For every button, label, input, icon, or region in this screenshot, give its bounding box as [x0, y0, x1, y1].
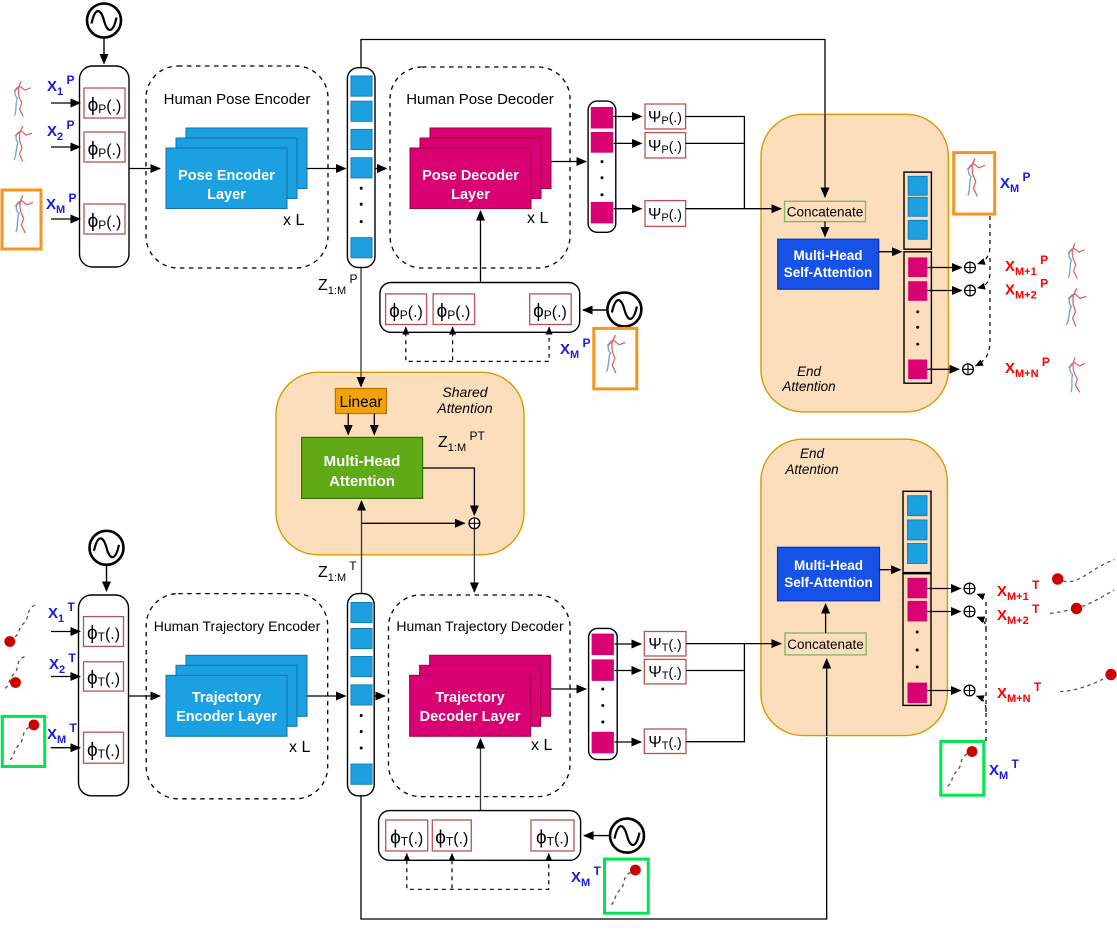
wire: Z_T branch to oplus	[362, 522, 465, 524]
wire: encoder to Z_T tokens	[307, 695, 346, 697]
wire: Z_P into Linear	[360, 372, 362, 387]
wire: input M arrow (T)	[51, 747, 80, 749]
oplus 2 (bottom)	[964, 606, 975, 617]
output skeleton 2	[1066, 288, 1086, 326]
phi-P box 3	[84, 204, 125, 234]
svg-text:x L: x L	[531, 737, 552, 754]
svg-text:Decoder Layer: Decoder Layer	[420, 709, 521, 725]
wire: Psi-P 3 to junction	[686, 208, 762, 210]
wire: MHSA to end tokens (bottom)	[880, 569, 901, 571]
svg-text:Trajectory: Trajectory	[435, 690, 504, 706]
wire: input 2 arrow	[51, 146, 80, 148]
Psi-T box 3	[644, 729, 686, 754]
wire: MHSA to end tokens (top)	[879, 251, 902, 253]
wire: Psi-T 3 to junction	[686, 644, 744, 742]
end token column magenta part (bottom)	[903, 574, 931, 706]
Linear box	[335, 389, 386, 414]
skeleton input M	[16, 196, 33, 233]
orange box X_M P (right)	[954, 153, 995, 215]
arrows up into query boxes	[405, 327, 407, 332]
svg-text:Attention: Attention	[784, 462, 838, 477]
trajectory encoder layer stack (back)	[186, 655, 307, 716]
phi-P embedding column	[80, 66, 130, 267]
output trajectory N	[1060, 679, 1103, 692]
svg-text:Human Trajectory Decoder: Human Trajectory Decoder	[396, 618, 564, 634]
blue token 1	[351, 76, 372, 96]
wire: encoder to Z tokens	[307, 168, 346, 170]
oplus 1 (bottom)	[964, 583, 975, 594]
sine source (pose query)	[607, 293, 641, 327]
skeleton input 2	[14, 126, 32, 161]
trajectory input 2	[5, 657, 25, 689]
blue token 5	[351, 238, 372, 258]
svg-text:Self-Attention: Self-Attention	[784, 265, 873, 280]
phi-P query box 3	[530, 294, 572, 325]
positional encoding sine source (bottom-left)	[90, 531, 124, 565]
Psi-T box 1	[644, 632, 686, 657]
end token column magenta part (top)	[904, 252, 931, 383]
wire: token to oplus 3 (bottom)	[927, 690, 961, 692]
positional encoding sine source (top-left)	[87, 4, 121, 38]
svg-text:Linear: Linear	[339, 394, 382, 411]
Psi-P box 2	[645, 133, 686, 158]
wire: Z tokens down to Linear	[360, 268, 362, 374]
end token column blue part (top)	[904, 172, 931, 249]
svg-text:Shared: Shared	[442, 384, 488, 400]
trajectory output token column	[589, 628, 618, 759]
phi-P box 2	[84, 132, 125, 162]
svg-text:Pose Decoder: Pose Decoder	[422, 168, 519, 184]
phi-T query box 3	[531, 820, 574, 851]
svg-text:Concatenate: Concatenate	[787, 637, 864, 652]
wire: input 1 arrow (T)	[51, 631, 80, 633]
svg-text:Self-Attention: Self-Attention	[784, 575, 873, 590]
svg-text:End: End	[797, 364, 822, 379]
wire: query embeddings up into trajectory decoder	[480, 739, 482, 811]
oplus (shared)	[469, 518, 480, 529]
wire: token to Psi-P 1	[614, 116, 642, 118]
dots	[601, 160, 604, 163]
phi-P query box 1	[386, 294, 427, 325]
pose encoder layer stack (back)	[186, 128, 307, 189]
Psi-T box 2	[644, 659, 686, 684]
wire: Psi junction into Concatenate (top)	[760, 208, 781, 210]
wire: Concatenate to MHSA (top)	[824, 222, 826, 237]
dashed residual: XM T to oplus 2	[977, 617, 986, 712]
phi-T query box 1	[386, 820, 428, 851]
orange box X_M P input	[2, 190, 41, 249]
phi-T embedding column	[79, 595, 129, 796]
pose decoder layer stack (middle)	[420, 138, 541, 199]
svg-text:Human Pose Decoder: Human Pose Decoder	[406, 91, 554, 108]
phi-P box 1	[84, 88, 125, 118]
wire: token to Psi-P 3	[614, 208, 642, 210]
oplus 2 (top)	[965, 285, 976, 296]
dashed feed lines below query row (T)	[407, 860, 549, 889]
orange box X_M P (query)	[594, 328, 637, 389]
trajectory decoder layer stack (middle)	[420, 665, 541, 726]
Concatenate box (bottom)	[785, 633, 866, 655]
pose decoder layer stack (front)	[410, 148, 531, 209]
wire: token to oplus 2 (top)	[927, 290, 961, 292]
svg-text:Attention: Attention	[781, 379, 835, 394]
svg-text:Human Pose Encoder: Human Pose Encoder	[164, 91, 311, 108]
svg-text:Multi-Head: Multi-Head	[794, 558, 863, 573]
output skeleton 1	[1068, 244, 1084, 278]
svg-text:Trajectory: Trajectory	[192, 690, 261, 706]
dashed residual: XM T to oplus 3	[977, 696, 987, 741]
Multi-Head Attention (green)	[302, 437, 423, 498]
phi-T query row container	[379, 811, 581, 861]
phi-T box 2	[84, 662, 124, 691]
wire: tokens to pose decoder	[375, 168, 387, 170]
oplus 1 (top)	[965, 262, 976, 273]
wire: input 1 arrow	[51, 102, 80, 104]
wire: sine to phi-T column	[106, 565, 108, 591]
wire: token to Psi-T 1	[615, 643, 642, 645]
dashed residual: XM to oplus 2	[978, 258, 991, 288]
wire: oplus down to trajectory decoder	[473, 529, 475, 592]
output skeleton 3	[1068, 357, 1086, 392]
svg-text:Attention: Attention	[329, 473, 395, 490]
magenta token 2	[591, 132, 613, 153]
pose encoder layer stack (middle)	[176, 138, 297, 199]
Shared Attention container	[276, 372, 524, 555]
wire: phi column to encoder	[129, 168, 160, 170]
wire: token to Psi-P 2	[614, 142, 642, 144]
blue token 3	[351, 129, 372, 149]
sine source (trajectory query)	[610, 819, 644, 853]
wire: pose decoder to output tokens	[551, 161, 586, 163]
Z_1:M^T token column	[348, 594, 375, 796]
trajectory decoder layer stack (back)	[430, 655, 551, 716]
wire: input 2 arrow (T)	[51, 676, 80, 678]
Z_1:M^P token column	[347, 68, 375, 268]
dashed residual: XM to oplus 3	[976, 290, 991, 366]
phi-T query box 2	[432, 820, 471, 851]
pose encoder layer stack (front)	[166, 148, 287, 209]
skeleton input 1	[14, 82, 30, 116]
Human Trajectory Decoder dashed box	[389, 595, 571, 797]
wire: MHA out to oplus (down)	[423, 468, 475, 515]
dashed residual: XM to oplus 1	[978, 216, 991, 264]
trajectory encoder layer stack (middle)	[176, 665, 297, 726]
magenta token 1	[591, 107, 613, 129]
wire: token to Psi-T 3	[615, 741, 642, 743]
wires: Linear to Multi-Head Attention	[347, 414, 349, 435]
wire: Psi-T 1 to junction	[686, 643, 762, 645]
wire: Z_T up into MHA	[361, 501, 363, 594]
dashed feed lines below query row	[406, 332, 549, 361]
wire: rail up into Concatenate (bottom)	[826, 659, 828, 736]
wire: Psi junction into Concatenate (bottom)	[760, 643, 781, 645]
green box X_M T input	[2, 716, 44, 766]
phi-T box 1	[84, 617, 124, 647]
svg-text:Pose Encoder: Pose Encoder	[178, 168, 275, 184]
svg-text:End: End	[800, 446, 825, 461]
end token column blue part (bottom)	[903, 491, 931, 572]
svg-text:Layer: Layer	[207, 187, 246, 203]
svg-text:Encoder Layer: Encoder Layer	[176, 709, 277, 725]
oplus 3 (top)	[963, 364, 974, 375]
magenta token 3	[591, 202, 613, 224]
dots	[360, 187, 363, 190]
output trajectory 1	[1052, 573, 1063, 584]
wire: sine to query row	[583, 309, 607, 311]
svg-text:x L: x L	[527, 210, 548, 227]
phi-P query box 2	[433, 294, 475, 325]
Multi-Head Self-Attention (bottom)	[778, 547, 880, 601]
Human Trajectory Encoder dashed box	[146, 594, 328, 799]
pose decoder layer stack (back)	[430, 128, 551, 189]
wire: Concatenate up to MHSA (bottom)	[825, 604, 827, 633]
green box X_M T (right)	[941, 741, 984, 795]
svg-text:Layer: Layer	[451, 187, 490, 203]
wire: sine to phi-P column	[103, 38, 105, 64]
blue token 2	[351, 101, 372, 121]
pose output token column	[588, 101, 616, 232]
trajectory input 1	[13, 605, 35, 638]
oplus 3 (bottom)	[964, 685, 975, 696]
Human Pose Decoder dashed box	[390, 67, 570, 268]
output trajectory 2	[1050, 610, 1071, 614]
wire: rail down into Concatenate (top)	[824, 114, 826, 197]
blue token 4	[351, 158, 372, 178]
Concatenate box (top)	[785, 201, 866, 221]
Psi-P box 1	[645, 104, 686, 129]
wire: phi-T column to encoder	[129, 695, 161, 697]
wire: token to oplus 1 (top)	[927, 267, 961, 269]
phi-P query row container	[380, 283, 580, 333]
svg-text:Attention: Attention	[436, 400, 492, 416]
wire: query embeddings up into pose decoder	[480, 211, 482, 283]
wire: tokens top to Concatenate (top rail)	[361, 40, 825, 116]
svg-text:Multi-Head: Multi-Head	[324, 453, 401, 470]
svg-text:Multi-Head: Multi-Head	[794, 248, 863, 263]
svg-text:Concatenate: Concatenate	[787, 205, 864, 220]
wire: token to oplus 3 (top)	[927, 368, 959, 370]
svg-text:Human Trajectory Encoder: Human Trajectory Encoder	[154, 618, 321, 634]
wire: Psi-T 2 to junction	[686, 670, 744, 672]
wire: input M arrow	[51, 218, 80, 220]
wire: token to oplus 1 (bottom)	[927, 588, 961, 590]
trajectory input M	[29, 720, 40, 731]
End Attention container (top)	[761, 114, 948, 412]
wire: tokens to trajectory decoder	[374, 695, 385, 697]
green box X_M T (query)	[605, 859, 649, 913]
wire: Psi-P 2 to junction	[686, 142, 745, 144]
trajectory encoder layer stack (front)	[166, 675, 287, 736]
Human Pose Encoder dashed box	[146, 66, 328, 268]
End Attention container (bottom)	[761, 439, 948, 735]
wire: tokens bottom rail to Concatenate (bottom)	[361, 737, 827, 919]
phi-T box 3	[84, 732, 124, 763]
trajectory decoder layer stack (front)	[410, 675, 531, 736]
wire: Psi-P 1 to junction	[686, 117, 745, 209]
wire: token to oplus 2 (bottom)	[927, 611, 961, 613]
wire: token to Psi-T 2	[615, 670, 642, 672]
svg-text:x L: x L	[283, 212, 304, 229]
wire: trajectory decoder to output tokens	[551, 688, 586, 690]
wire: sine to query row (T)	[584, 835, 609, 837]
arrows up into query boxes (T)	[406, 854, 408, 861]
dashed residual: XM T to oplus 1	[977, 594, 986, 630]
Psi-P box 3	[645, 201, 686, 227]
Multi-Head Self-Attention (top)	[778, 239, 879, 289]
svg-text:x L: x L	[289, 739, 310, 756]
